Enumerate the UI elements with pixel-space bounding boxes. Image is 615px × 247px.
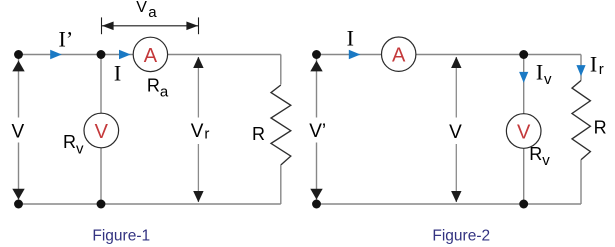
svg-text:I: I [347,26,354,51]
svg-text:I: I [590,51,597,76]
wire: fig1 right rail bottom segment [280,165,282,204]
svg-text:V: V [95,121,109,143]
svg-text:r: r [599,61,604,78]
arrowhead: current I into ammeter (blue) [119,50,131,60]
svg-text:a: a [148,4,157,21]
svg-text:V: V [12,122,25,143]
node: fig1 bottom-left [14,200,23,209]
node: fig2 bottom junction [519,200,528,209]
node: fig1 top junction [97,50,106,59]
svg-text:A: A [392,45,406,67]
ammeter A (fig1) [133,37,167,71]
svg-text:I: I [536,59,543,84]
node: fig2 bottom-left [312,200,321,209]
wire: fig2 top conductor [317,54,582,56]
arrowhead: V up (fig1 left rail) [12,61,24,72]
wire: fig1 bottom conductor [19,203,281,205]
node: fig1 bottom junction [97,200,106,209]
svg-text:V: V [517,122,531,144]
svg-text:V’: V’ [309,121,326,142]
wire: fig2 voltmeter branch upper [523,55,525,114]
svg-text:R: R [594,118,607,138]
svg-text:V: V [449,122,462,143]
svg-text:Figure-2: Figure-2 [432,227,490,244]
resistor R (fig1 load) [271,85,291,165]
node: fig1 top-left [14,50,23,59]
arrowhead: current I (blue, fig2) [349,50,361,60]
arrowhead: V' up (fig2 left rail) [310,61,322,72]
ammeter A (fig2) [382,37,416,71]
wire: fig2 right rail top segment [580,55,582,81]
svg-text:R: R [252,124,265,144]
wire: fig1 right rail top segment [280,55,282,85]
svg-text:Figure-1: Figure-1 [92,227,150,244]
svg-text:r: r [204,126,209,143]
arrowhead: V' down (fig2 left rail) [310,189,322,200]
wire: fig1 voltmeter branch lower [100,148,102,204]
node: fig2 top-left [312,50,321,59]
wire: fig2 right rail bottom segment [580,160,582,204]
arrowhead: current Ir (blue, down right rail) [576,65,585,76]
wire: fig2 bottom conductor [317,203,582,205]
measurement arrow: V (voltage across load branch, fig2) [451,57,461,203]
arrowhead: current I' (blue) [50,50,62,60]
voltmeter V (fig2) [506,114,541,149]
arrowhead: current Iv (blue, down) [519,72,528,83]
svg-text:V: V [136,0,147,16]
node: fig2 top junction [519,50,528,59]
wire: fig1 left rail (V branch, gap for label) [18,55,20,205]
svg-text:A: A [144,45,158,67]
svg-text:I’: I’ [59,27,74,52]
wire: fig2 voltmeter branch lower [523,148,525,204]
svg-text:I: I [114,61,121,86]
svg-text:V: V [191,121,204,142]
arrowhead: V down (fig1 left rail) [12,189,24,200]
voltmeter V (fig1) [84,113,119,148]
svg-text:v: v [544,71,552,88]
measurement arrow: Vr (voltage across R, fig1) [193,57,203,203]
wire: fig1 voltmeter branch upper [100,55,102,114]
dimension arrow: Va (voltage across ammeter) [102,17,199,34]
wire: fig2 left rail (V' branch, gap for label) [316,55,318,205]
wire: fig1 top conductor [19,54,281,56]
resistor R (fig2 load) [572,81,590,160]
